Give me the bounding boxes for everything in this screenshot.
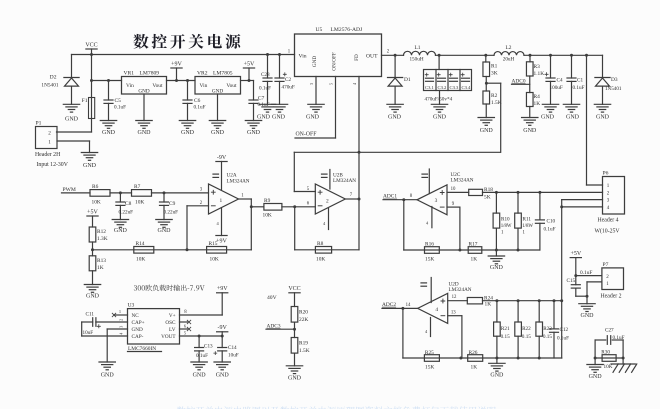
svg-text:VOUT: VOUT: [161, 334, 176, 340]
svg-text:470uF: 470uF: [282, 85, 295, 91]
svg-text:W(10-25V: W(10-25V: [595, 227, 621, 234]
svg-text:10K: 10K: [92, 199, 101, 205]
svg-text:+9V: +9V: [171, 61, 182, 67]
svg-text:Header 2: Header 2: [601, 293, 622, 299]
svg-text:12: 12: [452, 295, 457, 300]
svg-text:C28: C28: [261, 72, 270, 78]
svg-text:FD: FD: [354, 54, 360, 61]
svg-text:R20: R20: [299, 309, 308, 315]
svg-text:C2: C2: [285, 77, 291, 83]
svg-text:+9V: +9V: [216, 239, 227, 245]
svg-text:ADC0: ADC0: [512, 78, 526, 84]
svg-text:R21: R21: [501, 326, 510, 332]
svg-text:5K: 5K: [484, 195, 491, 201]
svg-text:100uF: 100uF: [550, 85, 563, 91]
svg-text:C3.3: C3.3: [450, 85, 460, 90]
svg-text:4: 4: [435, 307, 438, 313]
svg-text:5: 5: [329, 83, 334, 85]
svg-text:Vin: Vin: [200, 83, 208, 89]
svg-text:C1: C1: [577, 78, 583, 84]
svg-text:P1: P1: [36, 121, 42, 127]
svg-text:ON/OFF: ON/OFF: [332, 52, 338, 71]
svg-text:1N5401: 1N5401: [41, 82, 58, 88]
svg-text:GND: GND: [433, 115, 447, 121]
svg-text:CAP-: CAP-: [132, 334, 144, 340]
svg-text:R8: R8: [317, 241, 324, 247]
svg-text:0.1uF: 0.1uF: [557, 335, 569, 341]
svg-text:D1: D1: [404, 77, 411, 83]
svg-text:15K: 15K: [425, 364, 434, 370]
svg-text:1K: 1K: [471, 364, 478, 370]
svg-text:GND: GND: [83, 163, 97, 169]
svg-text:4: 4: [119, 333, 124, 335]
svg-text:P6: P6: [603, 171, 609, 177]
svg-text:1: 1: [119, 309, 121, 314]
svg-text:150uH: 150uH: [409, 57, 423, 63]
svg-text:C27: C27: [605, 328, 614, 334]
svg-text:14: 14: [406, 303, 411, 308]
svg-text:1K: 1K: [534, 101, 541, 107]
svg-text:GND: GND: [490, 265, 504, 271]
svg-text:GND: GND: [541, 115, 555, 121]
svg-text:+5V: +5V: [87, 209, 98, 215]
svg-text:0.1uF: 0.1uF: [580, 270, 592, 276]
svg-text:GND: GND: [596, 115, 610, 121]
svg-text:4: 4: [352, 83, 357, 85]
svg-text:R22: R22: [522, 326, 531, 332]
svg-text:R14: R14: [136, 241, 145, 247]
svg-text:+5V: +5V: [244, 61, 255, 67]
svg-text:GND: GND: [247, 130, 261, 136]
svg-text:0.1uF: 0.1uF: [573, 85, 585, 91]
svg-text:0.1uF: 0.1uF: [114, 105, 126, 111]
svg-text:C11: C11: [86, 312, 95, 318]
svg-text:LM324AN: LM324AN: [333, 178, 356, 184]
svg-text:NC: NC: [132, 313, 140, 319]
svg-text:C6: C6: [194, 98, 201, 104]
svg-text:R1: R1: [491, 64, 498, 70]
svg-text:1K: 1K: [97, 265, 104, 271]
svg-text:+5V: +5V: [570, 251, 581, 257]
svg-text:GND: GND: [480, 128, 494, 134]
svg-text:10K: 10K: [136, 256, 145, 262]
svg-text:GND: GND: [101, 373, 115, 379]
svg-text:CAP+: CAP+: [132, 320, 145, 326]
svg-text:10K: 10K: [135, 199, 144, 205]
svg-text:R26: R26: [469, 350, 478, 356]
svg-text:GND: GND: [158, 228, 172, 234]
svg-text:-9V: -9V: [218, 325, 228, 331]
svg-text:PWM: PWM: [63, 187, 76, 193]
svg-text:OUT: OUT: [366, 54, 378, 60]
svg-text:0.1uF: 0.1uF: [259, 86, 271, 92]
svg-text:R2: R2: [491, 93, 498, 99]
svg-text:OSC: OSC: [165, 320, 176, 326]
svg-text:C8: C8: [125, 201, 132, 207]
svg-text:10: 10: [451, 187, 456, 192]
svg-text:ON-OFF: ON-OFF: [296, 132, 318, 138]
svg-text:R12: R12: [97, 229, 106, 235]
svg-text:R4: R4: [534, 94, 541, 100]
svg-text:U3: U3: [128, 303, 135, 309]
svg-text:R9: R9: [264, 198, 271, 204]
svg-text:VR1: VR1: [124, 71, 135, 77]
svg-text:D3: D3: [611, 77, 618, 83]
svg-text:R30: R30: [601, 350, 610, 356]
svg-text:20uH: 20uH: [503, 57, 515, 63]
svg-text:0.15: 0.15: [522, 334, 531, 340]
svg-text:LM324AN: LM324AN: [449, 287, 472, 293]
svg-text:L2: L2: [506, 45, 512, 51]
svg-text:C9: C9: [169, 201, 176, 207]
svg-text:1.3K: 1.3K: [97, 236, 108, 242]
svg-text:GND: GND: [306, 115, 320, 121]
svg-text:10uF: 10uF: [83, 330, 94, 336]
svg-text:0.22uF: 0.22uF: [164, 210, 179, 216]
svg-text:R15: R15: [209, 241, 218, 247]
svg-text:GND: GND: [388, 115, 402, 121]
svg-text:ADC3: ADC3: [267, 323, 281, 329]
svg-text:10K: 10K: [263, 213, 272, 219]
svg-text:40V: 40V: [267, 295, 277, 301]
svg-text:GND: GND: [216, 373, 230, 379]
svg-text:Input 12-30V: Input 12-30V: [37, 162, 69, 168]
svg-text:GND: GND: [589, 374, 603, 380]
svg-text:0.1uF: 0.1uF: [196, 353, 208, 359]
svg-text:GND: GND: [272, 115, 286, 121]
svg-text:GND: GND: [566, 115, 580, 121]
svg-text:C7: C7: [258, 96, 265, 102]
svg-text:F1: F1: [82, 98, 88, 104]
svg-text:Vin: Vin: [126, 83, 134, 89]
svg-text:0.22uF: 0.22uF: [119, 210, 134, 216]
svg-text:C3.1: C3.1: [425, 85, 435, 90]
svg-text:1/8W: 1/8W: [522, 224, 533, 229]
svg-text:VCC: VCC: [288, 286, 300, 292]
svg-text:C3.4: C3.4: [462, 85, 472, 90]
svg-text:C3.2: C3.2: [438, 85, 448, 90]
svg-text:GND: GND: [288, 376, 302, 382]
svg-text:LM2576-ADJ: LM2576-ADJ: [331, 27, 364, 33]
svg-text:2: 2: [119, 319, 124, 321]
svg-text:Vout: Vout: [226, 83, 237, 89]
svg-text:0.1uF: 0.1uF: [194, 105, 206, 111]
svg-text:GND: GND: [211, 130, 225, 136]
svg-text:0.15: 0.15: [501, 334, 510, 340]
svg-text:GND: GND: [490, 373, 504, 379]
svg-text:1.5K: 1.5K: [299, 348, 310, 354]
svg-text:GND: GND: [193, 373, 207, 379]
svg-text:3K: 3K: [491, 71, 498, 77]
svg-text:GND: GND: [86, 294, 100, 300]
svg-text:U5: U5: [316, 27, 323, 33]
svg-text:GND: GND: [523, 128, 537, 134]
svg-text:3: 3: [435, 198, 438, 204]
svg-text:C10: C10: [547, 218, 556, 224]
svg-text:Header 4: Header 4: [598, 218, 619, 224]
svg-text:ADC2: ADC2: [382, 302, 396, 308]
svg-text:15K: 15K: [425, 256, 434, 262]
svg-text:R19: R19: [299, 340, 308, 346]
svg-text:C13: C13: [204, 343, 213, 349]
svg-text:V+: V+: [169, 313, 176, 319]
svg-text:VR2: VR2: [197, 71, 208, 77]
svg-text:2: 2: [326, 199, 329, 205]
svg-text:L1: L1: [415, 45, 421, 51]
svg-text:R25: R25: [425, 350, 434, 356]
svg-text:VCC: VCC: [85, 42, 97, 48]
svg-text:C14: C14: [228, 345, 237, 351]
svg-text:GND: GND: [257, 115, 271, 121]
svg-text:C5: C5: [115, 98, 122, 104]
svg-text:ADC1: ADC1: [383, 194, 397, 200]
svg-text:R13: R13: [97, 258, 106, 264]
svg-text:GND: GND: [581, 313, 595, 319]
svg-text:22K: 22K: [299, 317, 308, 323]
svg-text:LM7809: LM7809: [140, 71, 160, 77]
svg-text:R16: R16: [425, 242, 434, 248]
svg-text:LM324AN: LM324AN: [451, 178, 474, 184]
svg-text:1.1K: 1.1K: [534, 71, 545, 77]
svg-text:1: 1: [48, 140, 51, 146]
svg-text:R10: R10: [501, 217, 510, 223]
svg-text:GND: GND: [181, 130, 195, 136]
svg-text:10uF: 10uF: [228, 353, 239, 359]
svg-text:LM324AN: LM324AN: [227, 179, 250, 185]
svg-text:-9V: -9V: [217, 155, 227, 161]
svg-text:1K: 1K: [471, 256, 478, 262]
svg-text:10K: 10K: [604, 364, 613, 370]
svg-text:470uF/50v*4: 470uF/50v*4: [425, 96, 453, 102]
svg-text:D2: D2: [50, 75, 57, 81]
svg-text:R7: R7: [134, 184, 141, 190]
svg-text:GND: GND: [138, 130, 152, 136]
svg-text:0.15: 0.15: [543, 334, 552, 340]
svg-text:R3: R3: [534, 64, 541, 70]
svg-text:Header 2H: Header 2H: [35, 152, 61, 158]
svg-text:0.1uF: 0.1uF: [544, 226, 556, 232]
svg-text:3: 3: [309, 83, 314, 85]
svg-text:GND: GND: [312, 56, 318, 67]
svg-text:1: 1: [220, 198, 223, 204]
svg-text:LV: LV: [169, 327, 176, 333]
svg-text:Vout: Vout: [152, 83, 163, 89]
svg-text:R17: R17: [469, 242, 478, 248]
svg-text:GND: GND: [114, 228, 128, 234]
svg-text:C4: C4: [557, 78, 563, 84]
svg-text:+9V: +9V: [217, 286, 228, 292]
svg-text:1K: 1K: [485, 302, 492, 308]
svg-text:1/8W: 1/8W: [501, 224, 512, 229]
svg-text:1N5401: 1N5401: [605, 86, 622, 92]
svg-text:C12: C12: [560, 327, 569, 333]
svg-text:13: 13: [451, 311, 456, 316]
svg-text:10K: 10K: [316, 256, 325, 262]
svg-text:GND: GND: [102, 130, 116, 136]
svg-text:2: 2: [48, 131, 51, 137]
svg-text:C15: C15: [567, 278, 576, 284]
svg-text:P7: P7: [603, 262, 609, 268]
svg-text:10K: 10K: [210, 256, 219, 262]
svg-text:Vin: Vin: [299, 54, 307, 60]
svg-text:3: 3: [119, 326, 124, 328]
svg-text:GND: GND: [65, 116, 79, 122]
svg-text:GND: GND: [132, 327, 143, 333]
svg-text:R11: R11: [523, 217, 532, 223]
svg-text:LM7805: LM7805: [213, 71, 233, 77]
svg-text:R6: R6: [92, 184, 99, 190]
